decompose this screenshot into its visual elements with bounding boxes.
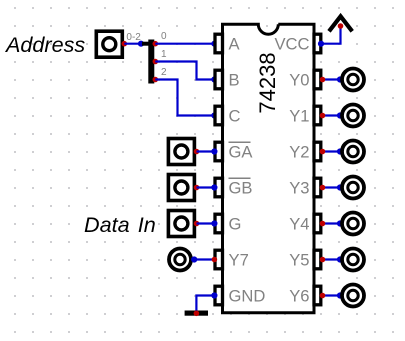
svg-text:GB: GB bbox=[229, 179, 253, 198]
pin stub Y7 bbox=[215, 250, 223, 269]
output pin Y3 bbox=[342, 177, 364, 199]
wire end dot at pin GND bbox=[211, 292, 217, 298]
svg-text:74238: 74238 bbox=[255, 52, 280, 113]
wire chip Y7 to output pin bbox=[193, 258, 213, 260]
pin label GB with overline bbox=[229, 178, 253, 197]
wire end dot at pin B bbox=[211, 76, 217, 82]
wire chip Y3 to output pin bbox=[323, 186, 341, 188]
wire VCC to power bbox=[321, 26, 341, 44]
splitter port dot 2 bbox=[153, 77, 159, 83]
pin stub GA bbox=[215, 142, 223, 161]
wire GB pin to chip bbox=[197, 186, 214, 188]
svg-text:Y6: Y6 bbox=[289, 287, 309, 306]
port dot (power output) bbox=[338, 23, 344, 29]
port dot (Address pin output) bbox=[122, 41, 128, 47]
svg-text:Y7: Y7 bbox=[229, 251, 249, 270]
svg-text:2: 2 bbox=[161, 67, 167, 78]
svg-text:Address: Address bbox=[4, 32, 85, 57]
power symbol (supply arrow) bbox=[329, 16, 352, 31]
wire end dot at splitter input bbox=[138, 41, 144, 47]
port dot (chip Y6 output) bbox=[320, 293, 326, 299]
port dot (chip Y5 output) bbox=[320, 257, 326, 263]
svg-text:In: In bbox=[138, 212, 156, 237]
pin stub Y1 bbox=[314, 106, 321, 125]
wire end dot at Y7 output pin bbox=[191, 256, 197, 262]
svg-text:Y1: Y1 bbox=[289, 107, 309, 126]
pin stub G bbox=[215, 214, 223, 233]
pin stub VCC bbox=[314, 34, 321, 53]
svg-text:GA: GA bbox=[229, 143, 254, 162]
pin stub GND bbox=[215, 286, 223, 305]
svg-text:GND: GND bbox=[229, 287, 266, 306]
IC U1 74238 body bbox=[223, 24, 315, 313]
svg-text:C: C bbox=[229, 107, 241, 126]
wire end dot at Y5 output pin bbox=[337, 256, 343, 262]
pin stub B bbox=[215, 70, 223, 89]
wire end dot at pin GA bbox=[211, 148, 217, 154]
pin stub Y2 bbox=[314, 142, 321, 161]
pin stub C bbox=[215, 106, 223, 125]
splitter port dot 0 bbox=[153, 41, 159, 47]
port dot (GA pin output) bbox=[194, 149, 200, 155]
svg-text:0: 0 bbox=[161, 31, 167, 42]
output pin Y5 bbox=[342, 249, 364, 271]
wire splitter bit2 to pin C bbox=[155, 80, 213, 116]
input pin GB bbox=[168, 175, 194, 201]
wire end dot at pin G bbox=[211, 220, 217, 226]
svg-text:VCC: VCC bbox=[274, 35, 309, 54]
wire chip Y5 to output pin bbox=[323, 258, 341, 260]
svg-text:Y5: Y5 bbox=[289, 251, 309, 270]
wire GA pin to chip bbox=[197, 150, 214, 152]
svg-text:A: A bbox=[229, 35, 241, 54]
wire end dot at Y3 output pin bbox=[337, 184, 343, 190]
wire splitter bit1 to pin B bbox=[155, 62, 213, 80]
splitter SP1 bbox=[142, 40, 154, 84]
svg-text:Y4: Y4 bbox=[289, 215, 309, 234]
pin stub Y4 bbox=[314, 214, 321, 233]
wire end dot at Y2 output pin bbox=[337, 148, 343, 154]
splitter port dot 1 bbox=[153, 59, 159, 65]
wire chip Y4 to output pin bbox=[323, 222, 341, 224]
pin stub Y0 bbox=[314, 70, 321, 89]
port dot (chip Y0 output) bbox=[320, 77, 326, 83]
pin label GA with overline bbox=[229, 142, 254, 161]
wire splitter bit0 to pin A bbox=[155, 43, 213, 45]
wire end dot at pin VCC bbox=[318, 41, 324, 47]
input pin GA bbox=[168, 139, 194, 165]
port dot (GB pin output) bbox=[194, 185, 200, 191]
pin stub A bbox=[215, 34, 223, 53]
wire end dot at Y6 output pin bbox=[337, 292, 343, 298]
output pin Y6 bbox=[342, 285, 364, 307]
svg-text:G: G bbox=[229, 215, 242, 234]
svg-text:B: B bbox=[229, 71, 240, 90]
pin stub Y3 bbox=[314, 178, 321, 197]
output pin Y0 bbox=[342, 69, 364, 91]
wire chip Y0 to output pin bbox=[323, 78, 341, 80]
wire end dot at pin GB bbox=[211, 184, 217, 190]
port dot (chip Y1 output) bbox=[320, 113, 326, 119]
wire end dot at Y4 output pin bbox=[337, 220, 343, 226]
svg-text:Data: Data bbox=[84, 212, 130, 237]
port dot (chip Y7 output) bbox=[212, 257, 218, 263]
svg-text:Y3: Y3 bbox=[289, 179, 309, 198]
wire end dot at pin A bbox=[211, 41, 217, 47]
wire Address pin to splitter bbox=[124, 43, 141, 45]
port dot (chip Y2 output) bbox=[320, 149, 326, 155]
output pin Y4 bbox=[342, 213, 364, 235]
wire end dot at Y0 output pin bbox=[337, 76, 343, 82]
wire end dot at pin C bbox=[211, 112, 217, 118]
pin stub GB bbox=[215, 178, 223, 197]
wire G pin to chip bbox=[197, 222, 214, 224]
port dot (chip Y3 output) bbox=[320, 185, 326, 191]
wire GND to ground bbox=[196, 296, 213, 314]
wire end dot at Y1 output pin bbox=[337, 112, 343, 118]
ground symbol bbox=[185, 311, 208, 316]
port dot (chip Y4 output) bbox=[320, 221, 326, 227]
output pin Y2 bbox=[342, 141, 364, 163]
svg-text:Y2: Y2 bbox=[289, 143, 309, 162]
output pin Y7 bbox=[169, 249, 191, 271]
input pin Address bbox=[96, 31, 122, 57]
svg-text:Y0: Y0 bbox=[289, 71, 309, 90]
input pin G bbox=[168, 211, 194, 237]
svg-text:1: 1 bbox=[161, 49, 167, 60]
port dot (ground output) bbox=[194, 311, 200, 317]
port dot (G pin output) bbox=[194, 221, 200, 227]
wire chip Y1 to output pin bbox=[323, 114, 341, 116]
pin stub Y5 bbox=[314, 250, 321, 269]
wire chip Y6 to output pin bbox=[323, 294, 341, 296]
output pin Y1 bbox=[342, 105, 364, 127]
svg-text:0-2: 0-2 bbox=[126, 32, 141, 43]
pin stub Y6 bbox=[314, 286, 321, 305]
wire chip Y2 to output pin bbox=[323, 150, 341, 152]
